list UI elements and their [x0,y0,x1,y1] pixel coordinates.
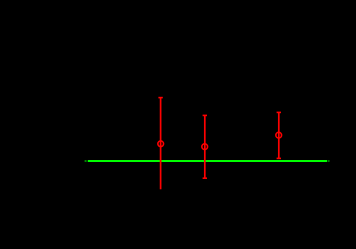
green baseline dim segment [86,160,88,162]
data point 2 circle marker [202,144,208,150]
green baseline [88,160,327,162]
error bar 3 bottom cap [277,157,281,159]
error bar 1 vertical line [160,98,162,190]
data point 3 circle marker [276,132,282,138]
error bar 2 bottom cap [203,177,207,179]
green baseline end fragment [328,160,330,162]
error bar 2 vertical line [204,115,206,178]
error bar 3 top cap [277,111,281,113]
error bar 1 top cap [158,97,162,99]
error bar 2 top cap [203,114,207,116]
error bar 3 vertical line [278,112,280,158]
green baseline start fragment [85,160,87,162]
data point 1 circle marker [158,141,164,147]
